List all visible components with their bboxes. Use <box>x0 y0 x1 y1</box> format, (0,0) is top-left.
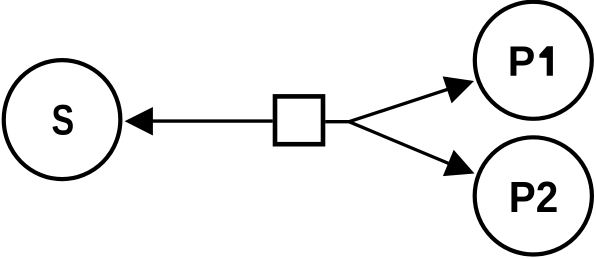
label P1 letter P <box>508 37 535 85</box>
svg-text:P2: P2 <box>509 172 558 221</box>
svg-text:S: S <box>51 97 74 144</box>
svg-text:P: P <box>508 37 535 85</box>
wire junction to P1 <box>349 89 450 122</box>
label S <box>51 97 74 144</box>
wire transition to junction <box>325 120 349 123</box>
label P2 <box>509 172 558 221</box>
wire transition to S <box>150 119 273 122</box>
arrowhead into P2 <box>443 150 475 176</box>
wire junction to P2 <box>349 122 450 164</box>
arrowhead into S <box>125 107 153 136</box>
place P2 <box>475 137 592 254</box>
transition T <box>275 96 323 144</box>
place P1 <box>475 2 592 119</box>
place S <box>4 60 121 179</box>
arrowhead into P1 <box>443 76 474 103</box>
label P1 digit 1 <box>539 46 553 75</box>
